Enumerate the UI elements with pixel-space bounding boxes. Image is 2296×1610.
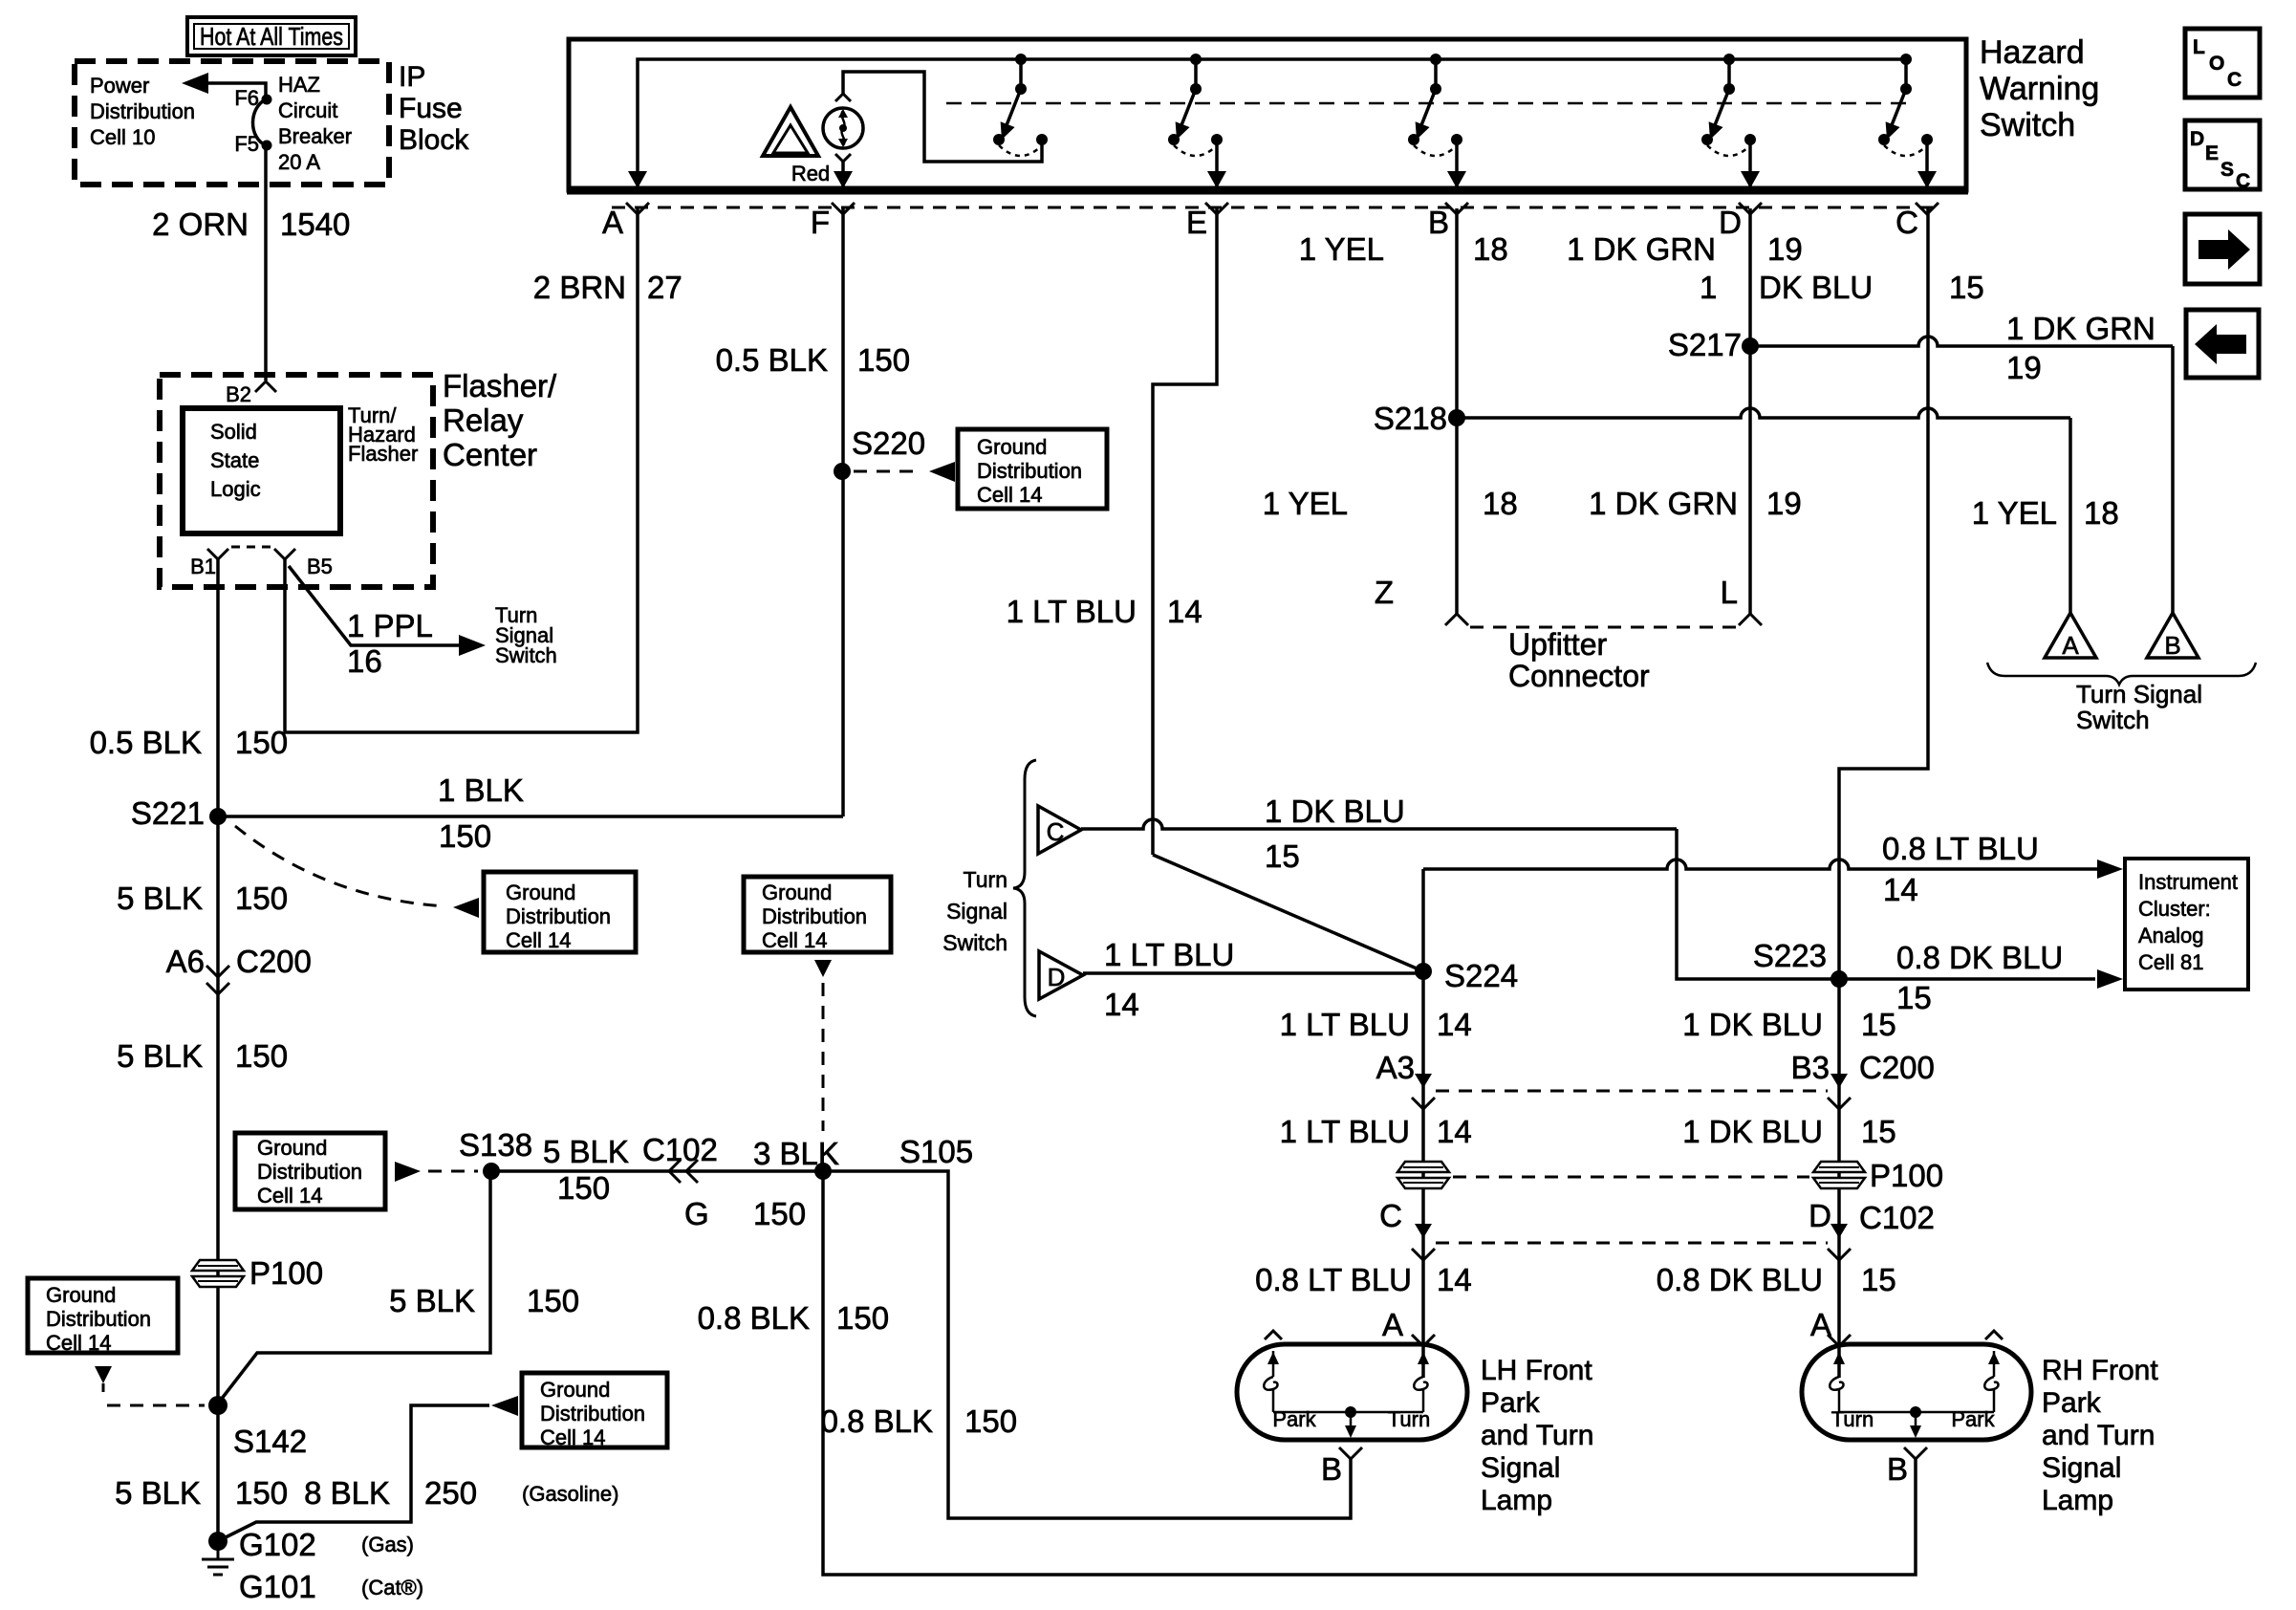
svg-text:1 YEL: 1 YEL: [1263, 486, 1348, 521]
svg-text:L: L: [2193, 36, 2205, 58]
svg-text:Block: Block: [399, 124, 469, 156]
svg-text:Flasher: Flasher: [348, 442, 418, 466]
svg-text:1 DK BLU: 1 DK BLU: [1682, 1007, 1823, 1042]
svg-text:A: A: [2062, 631, 2079, 660]
brace under triangles: [1987, 663, 2256, 685]
node S142: [208, 1396, 307, 1459]
dashed lead ground box to S105: [822, 983, 825, 1131]
svg-text:Solid: Solid: [210, 420, 257, 444]
svg-text:Power: Power: [90, 74, 149, 98]
label Turn Hazard Flasher: [348, 403, 418, 466]
svg-text:18: 18: [1473, 231, 1508, 267]
svg-text:8 BLK: 8 BLK: [304, 1475, 390, 1511]
svg-text:Turn: Turn: [1388, 1407, 1430, 1431]
svg-text:15: 15: [1265, 838, 1300, 874]
svg-text:14: 14: [1437, 1262, 1472, 1297]
label Turn Signal Switch (middle): [942, 867, 1007, 955]
DESC box: [2185, 120, 2260, 192]
upfitter connector dashed line: [1470, 626, 1740, 629]
triangle terminal D: [1039, 951, 1083, 999]
connector E of hazard switch: [1186, 203, 1228, 240]
svg-text:Logic: Logic: [210, 477, 261, 501]
svg-text:B: B: [1428, 205, 1449, 240]
label Hazard Warning Switch: [1980, 34, 2099, 143]
svg-text:C: C: [2227, 69, 2242, 91]
wire C triangle to S223: [1081, 819, 2095, 979]
svg-text:Hazard: Hazard: [1980, 34, 2085, 71]
svg-text:P100: P100: [249, 1255, 323, 1291]
svg-text:Connector: Connector: [1508, 659, 1650, 693]
hazard switch pole 5: [1878, 54, 1933, 156]
connector C of hazard switch: [1895, 203, 1939, 240]
label 1 YEL 18 (below S218): [1263, 486, 1518, 521]
connector A (RH lamp): [1810, 1307, 1851, 1346]
svg-text:Ground: Ground: [257, 1136, 327, 1160]
svg-text:S218: S218: [1374, 401, 1447, 436]
svg-text:0.8 BLK: 0.8 BLK: [821, 1403, 933, 1439]
svg-text:27: 27: [647, 270, 682, 305]
svg-text:B5: B5: [307, 555, 333, 578]
svg-text:Turn: Turn: [964, 867, 1007, 892]
wire switch drop E: [1207, 143, 1226, 188]
label 1 DK GRN 19 (D wire): [1567, 231, 1803, 267]
wire B5 loop to hazard A terminal: [285, 208, 638, 732]
svg-text:150: 150: [857, 342, 910, 378]
svg-text:S: S: [2220, 159, 2234, 181]
svg-text:P100: P100: [1870, 1158, 1943, 1193]
label 0.8 BLK 150 (LH branch): [821, 1403, 1017, 1439]
label Flasher Relay Center: [443, 368, 557, 472]
svg-text:0.5 BLK: 0.5 BLK: [90, 725, 202, 760]
svg-text:0.8 DK BLU: 0.8 DK BLU: [1896, 940, 2063, 975]
svg-text:1 PPL: 1 PPL: [347, 608, 433, 643]
label 0.8 LT BLU 14 (cluster): [1882, 831, 2039, 907]
svg-text:Distribution: Distribution: [90, 99, 195, 123]
wire S105 to RH lamp B: [823, 1171, 1916, 1575]
node S223: [1753, 938, 1848, 988]
svg-text:15: 15: [1861, 1262, 1896, 1297]
bus wire inside hazard box: [638, 59, 1907, 187]
svg-text:(Gas): (Gas): [361, 1533, 414, 1556]
svg-text:Z: Z: [1375, 575, 1394, 610]
svg-text:150: 150: [235, 725, 288, 760]
label 1 DK BLU 15 (C triangle): [1265, 794, 1405, 874]
svg-text:5 BLK: 5 BLK: [117, 1038, 203, 1074]
svg-text:1 DK BLU: 1 DK BLU: [1682, 1114, 1823, 1149]
label 1 DK BLU 15 (top RH): [1682, 1007, 1895, 1042]
dashed lead S221 to ground cell: [235, 826, 479, 918]
LOC box: [2185, 29, 2260, 98]
svg-text:Switch: Switch: [1980, 107, 2075, 143]
svg-text:Signal: Signal: [2042, 1452, 2121, 1484]
dashed P100 line: [1453, 1176, 1809, 1179]
svg-text:Ground: Ground: [762, 881, 832, 904]
wire 1 PPL branch: [289, 566, 486, 656]
svg-text:15: 15: [1861, 1114, 1896, 1149]
svg-text:1540: 1540: [280, 207, 350, 242]
svg-text:E: E: [2205, 142, 2219, 164]
svg-text:Park: Park: [1951, 1407, 1995, 1431]
svg-text:150: 150: [557, 1170, 610, 1206]
svg-text:B: B: [2164, 631, 2180, 660]
svg-text:150: 150: [439, 818, 491, 854]
svg-text:1 LT BLU: 1 LT BLU: [1280, 1007, 1410, 1042]
wire switch drop C: [1917, 143, 1937, 188]
svg-text:150: 150: [836, 1300, 889, 1336]
LH front park and turn signal lamp: [1237, 1331, 1593, 1516]
wire S218 to turn signal A: [1457, 408, 2070, 613]
dashed lead S220 to ground cell: [854, 462, 955, 482]
svg-text:19: 19: [1766, 486, 1802, 521]
svg-text:D: D: [2190, 128, 2204, 150]
svg-text:C200: C200: [1859, 1050, 1935, 1085]
svg-text:Cluster:: Cluster:: [2138, 897, 2211, 921]
node S224: [1415, 958, 1518, 993]
node S105: [814, 1134, 973, 1180]
svg-text:State: State: [210, 448, 259, 472]
svg-text:A: A: [1382, 1307, 1403, 1342]
connector P100 (left column): [192, 1255, 323, 1291]
svg-text:Warning: Warning: [1980, 71, 2099, 107]
connector A6 C200: [166, 944, 312, 994]
arrow + dashed lead to S138: [395, 1162, 478, 1182]
svg-text:1 YEL: 1 YEL: [1299, 231, 1384, 267]
label 5 BLK 150 (below C200): [117, 1038, 288, 1074]
svg-text:LH Front: LH Front: [1481, 1355, 1592, 1386]
svg-text:1 DK GRN: 1 DK GRN: [2006, 311, 2155, 346]
svg-text:Lamp: Lamp: [2042, 1485, 2113, 1516]
svg-text:B3: B3: [1791, 1050, 1830, 1085]
triangle terminal B: [2147, 613, 2199, 660]
svg-text:S224: S224: [1444, 958, 1518, 993]
wire B drop: [1455, 208, 1459, 614]
svg-text:150: 150: [235, 881, 288, 916]
svg-text:150: 150: [235, 1475, 288, 1511]
svg-text:20 A: 20 A: [278, 150, 320, 174]
svg-text:1 LT BLU: 1 LT BLU: [1007, 594, 1137, 629]
ground distribution cell 14 box (S142 left): [28, 1278, 178, 1355]
svg-text:L: L: [1721, 575, 1738, 610]
arrowhead F terminal: [834, 171, 853, 188]
wire S221 down: [216, 816, 220, 1541]
label 1 LT BLU 14 (E wire): [1007, 594, 1202, 629]
svg-text:and Turn: and Turn: [1481, 1420, 1593, 1451]
svg-text:S220: S220: [852, 425, 925, 461]
svg-text:18: 18: [1483, 486, 1518, 521]
svg-text:Switch: Switch: [942, 930, 1007, 955]
svg-text:15: 15: [1861, 1007, 1896, 1042]
svg-text:0.8 LT BLU: 0.8 LT BLU: [1882, 831, 2039, 866]
svg-text:RH Front: RH Front: [2042, 1355, 2158, 1386]
svg-text:C102: C102: [1859, 1200, 1935, 1235]
label 1 LT BLU 14 (D triangle): [1104, 937, 1234, 1022]
svg-text:D: D: [1719, 205, 1742, 240]
svg-text:Cell 14: Cell 14: [977, 483, 1042, 507]
label Turn Signal Switch (right): [2076, 680, 2202, 734]
svg-text:S217: S217: [1668, 327, 1742, 362]
svg-text:Lamp: Lamp: [1481, 1485, 1552, 1516]
label 5 BLK 150 (S138 right): [543, 1134, 629, 1206]
svg-text:1 LT BLU: 1 LT BLU: [1280, 1114, 1410, 1149]
wire lamp lower lead: [841, 162, 845, 187]
svg-text:G102: G102: [239, 1527, 316, 1562]
dashed connector line under hazard box: [612, 207, 1940, 209]
label 1 DK BLU 15 (RH mid): [1682, 1114, 1895, 1149]
svg-text:C: C: [2236, 170, 2250, 192]
svg-text:B2: B2: [226, 382, 251, 406]
label 1 LT BLU 14 (LH mid): [1280, 1114, 1472, 1149]
svg-text:Cell 81: Cell 81: [2138, 950, 2203, 974]
hazard triangle icon: [763, 107, 818, 156]
wire S142 to S138: [218, 1171, 490, 1403]
svg-text:14: 14: [1437, 1114, 1472, 1149]
Hot At All Times box: [187, 17, 356, 55]
wire F6 feed arrow: [182, 73, 266, 99]
hazard switch pole 2: [1168, 54, 1223, 156]
connector F of hazard switch: [811, 203, 855, 240]
svg-text:(Cat®): (Cat®): [361, 1576, 423, 1599]
svg-text:1 BLK: 1 BLK: [438, 772, 524, 808]
triangle terminal C: [1038, 806, 1081, 854]
svg-text:Distribution: Distribution: [762, 904, 867, 928]
svg-text:14: 14: [1883, 872, 1918, 907]
svg-text:15: 15: [1949, 270, 1984, 305]
dashed C200 line: [1436, 1090, 1828, 1093]
triangle terminal A: [2045, 613, 2096, 660]
svg-text:C: C: [1895, 205, 1918, 240]
node S217: [1668, 327, 1759, 362]
connector B2: [226, 381, 276, 406]
wire D triangle to S224: [1083, 971, 1423, 975]
label 1 DK GRN 19 (below S217): [1589, 486, 1802, 521]
connector C102 G: [642, 1132, 718, 1231]
svg-text:15: 15: [1896, 980, 1932, 1015]
svg-text:1 YEL: 1 YEL: [1972, 495, 2057, 531]
svg-text:150: 150: [753, 1196, 806, 1231]
svg-text:Fuse: Fuse: [399, 93, 463, 124]
svg-text:Signal: Signal: [946, 899, 1007, 924]
label 1 DK BLU 15 (C wire): [1700, 270, 1984, 305]
svg-text:S223: S223: [1753, 938, 1827, 973]
svg-text:S221: S221: [131, 795, 205, 831]
svg-text:and Turn: and Turn: [2042, 1420, 2155, 1451]
svg-text:C: C: [1047, 817, 1065, 846]
dashed connector face B1-B5: [231, 546, 275, 549]
connector Z of upfitter: [1375, 575, 1468, 625]
svg-text:S105: S105: [899, 1134, 973, 1169]
svg-text:C: C: [1379, 1198, 1402, 1233]
label G101 Cat: [239, 1569, 423, 1604]
label 0.8 LT BLU 14 (LH): [1255, 1262, 1472, 1297]
svg-text:Signal: Signal: [1481, 1452, 1560, 1484]
svg-text:F6: F6: [234, 86, 259, 110]
svg-text:Distribution: Distribution: [540, 1402, 645, 1425]
svg-text:A6: A6: [166, 944, 205, 979]
svg-text:Distribution: Distribution: [506, 904, 611, 928]
arrow below S105 ground box: [814, 960, 832, 977]
svg-text:D: D: [1809, 1198, 1831, 1233]
connector B (LH lamp): [1321, 1447, 1362, 1487]
wire E diagonal to S224: [1153, 855, 1423, 971]
svg-text:5 BLK: 5 BLK: [389, 1283, 475, 1318]
label 1 YEL 18 (B wire): [1299, 231, 1508, 267]
svg-text:(Gasoline): (Gasoline): [522, 1482, 618, 1506]
svg-text:S138: S138: [459, 1127, 532, 1163]
hazard switch pole 1: [993, 54, 1048, 156]
svg-text:HAZ: HAZ: [278, 73, 320, 97]
chevron below lamp: [835, 154, 851, 162]
svg-text:0.8 LT BLU: 0.8 LT BLU: [1255, 1262, 1412, 1297]
arrow S223 to instrument cluster: [2097, 969, 2123, 989]
connector L of upfitter: [1721, 575, 1762, 625]
dashed C102 line: [1436, 1242, 1828, 1245]
svg-text:IP: IP: [399, 61, 425, 93]
label 0.8 BLK 150 (S105 drop): [698, 1300, 889, 1336]
wire S217 to turn signal B: [1750, 337, 2173, 613]
svg-text:1: 1: [1700, 270, 1717, 305]
svg-text:1 DK BLU: 1 DK BLU: [1265, 794, 1405, 829]
right arrow box: [2185, 214, 2260, 284]
svg-text:Cell 14: Cell 14: [506, 928, 571, 952]
connector P100 RH: [1813, 1158, 1943, 1193]
svg-text:E: E: [1186, 205, 1207, 240]
svg-text:150: 150: [235, 1038, 288, 1074]
svg-text:14: 14: [1167, 594, 1202, 629]
label 5 BLK 150 (above C200): [117, 881, 288, 916]
ground distribution cell 14 box (S221): [484, 872, 636, 952]
label 2 BRN 27: [533, 270, 682, 305]
connector P100 LH: [1397, 1162, 1449, 1188]
svg-text:C200: C200: [236, 944, 312, 979]
label 1 BLK 150: [438, 772, 524, 854]
svg-text:Cell 14: Cell 14: [540, 1425, 605, 1449]
svg-text:Center: Center: [443, 437, 537, 472]
node S218: [1374, 401, 1465, 436]
svg-text:Breaker: Breaker: [278, 124, 352, 148]
svg-text:A: A: [602, 205, 623, 240]
connector B1: [190, 549, 228, 578]
svg-text:1 DK GRN: 1 DK GRN: [1589, 486, 1738, 521]
label 0.5 BLK 150 (B1 wire): [90, 725, 288, 760]
arrow below left ground box: [95, 1366, 112, 1392]
brace turn signal switch: [1013, 760, 1036, 1016]
wire F drop to S220: [841, 208, 845, 816]
label 1 LT BLU 14 (below S224): [1280, 1007, 1472, 1042]
wire 2 ORN 1540: [264, 145, 268, 381]
wire B1 to S221: [216, 559, 220, 816]
wire 8 BLK 250: [218, 1396, 518, 1541]
svg-text:F: F: [811, 205, 830, 240]
wire switch drop B: [1447, 143, 1466, 188]
connector D C102 (RH): [1809, 1198, 1935, 1260]
label 2 ORN 1540: [152, 207, 350, 242]
svg-text:14: 14: [1104, 987, 1139, 1022]
label 5 BLK 150 (S138 riser): [389, 1283, 579, 1318]
label 8 BLK 250 Gasoline: [304, 1475, 618, 1511]
svg-text:Instrument: Instrument: [2138, 870, 2238, 894]
label 3 BLK 150: [753, 1136, 839, 1231]
left arrow box: [2186, 310, 2259, 378]
svg-text:Turn Signal: Turn Signal: [2076, 680, 2202, 708]
svg-text:B: B: [1887, 1451, 1908, 1487]
label 1 DK GRN 19 (S217 branch): [2006, 311, 2155, 385]
svg-text:1 DK GRN: 1 DK GRN: [1567, 231, 1716, 267]
svg-text:F5: F5: [234, 132, 259, 156]
svg-text:18: 18: [2084, 495, 2119, 531]
connector C C102 (LH): [1379, 1198, 1435, 1260]
svg-text:Turn: Turn: [1831, 1407, 1874, 1431]
ground distribution cell 14 box (gasoline): [522, 1373, 667, 1449]
svg-text:19: 19: [2006, 350, 2042, 385]
svg-text:B: B: [1321, 1451, 1342, 1487]
svg-text:Cell 14: Cell 14: [257, 1184, 322, 1207]
label 0.8 DK BLU 15 (RH): [1657, 1262, 1896, 1297]
svg-text:14: 14: [1437, 1007, 1472, 1042]
svg-text:Hot At All Times: Hot At All Times: [200, 22, 343, 51]
label 0.5 BLK 150 (F wire): [716, 342, 910, 378]
arrowhead A terminal: [628, 171, 647, 188]
wire switch drop D: [1741, 143, 1760, 188]
label 1 YEL 18 (triangle A wire): [1972, 495, 2119, 531]
svg-text:Ground: Ground: [506, 881, 575, 904]
wire S224 down to LH lamp: [1421, 971, 1425, 1378]
node S138: [459, 1127, 532, 1180]
connector A3 C200: [1376, 1050, 1435, 1109]
hazard switch pole 4: [1701, 54, 1756, 156]
wire S138 to S105: [491, 1169, 823, 1173]
ground distribution cell 14 box (S220): [958, 429, 1107, 509]
chevron above lamp: [835, 94, 851, 101]
circuit breaker HAZ 20A: [234, 73, 352, 174]
RH front park and turn signal lamp: [1802, 1331, 2158, 1516]
instrument cluster box: [2125, 859, 2248, 990]
svg-text:Upfitter: Upfitter: [1508, 627, 1607, 662]
svg-text:16: 16: [347, 643, 382, 679]
connector B of hazard switch: [1428, 203, 1468, 240]
connector B5: [274, 549, 333, 578]
svg-text:Park: Park: [1272, 1407, 1316, 1431]
svg-text:O: O: [2209, 53, 2224, 75]
svg-text:DK BLU: DK BLU: [1759, 270, 1873, 305]
svg-text:0.8 DK BLU: 0.8 DK BLU: [1657, 1262, 1823, 1297]
svg-text:B1: B1: [190, 555, 216, 578]
ground distribution cell 14 box (S105): [744, 877, 891, 952]
svg-text:1 LT BLU: 1 LT BLU: [1104, 937, 1234, 972]
connector B3 C200: [1791, 1050, 1935, 1109]
svg-text:5 BLK: 5 BLK: [115, 1475, 201, 1511]
svg-text:Switch: Switch: [2076, 706, 2150, 734]
IP Fuse Block dashed box: [75, 61, 389, 185]
label Turn Signal Switch (left): [495, 603, 557, 667]
label 5 BLK 150 (below S142): [115, 1475, 288, 1511]
connector A of hazard switch: [602, 203, 649, 240]
svg-text:5 BLK: 5 BLK: [117, 881, 203, 916]
svg-text:Ground: Ground: [977, 435, 1047, 459]
svg-text:Circuit: Circuit: [278, 98, 337, 122]
node G102 ground: [202, 1532, 234, 1575]
svg-text:Cell 14: Cell 14: [762, 928, 827, 952]
wire lamp upper lead Z path: [843, 72, 1042, 162]
svg-text:D: D: [1048, 963, 1066, 991]
dashed lead to S142: [107, 1404, 205, 1407]
svg-text:Ground: Ground: [46, 1283, 116, 1307]
indicator lamp Red: [823, 108, 863, 148]
switch linkage dashed: [946, 102, 1906, 105]
Flasher Relay Center dashed box: [160, 375, 433, 587]
svg-text:2 ORN: 2 ORN: [152, 207, 249, 242]
svg-text:Ground: Ground: [540, 1378, 610, 1402]
svg-text:Cell 10: Cell 10: [90, 125, 155, 149]
